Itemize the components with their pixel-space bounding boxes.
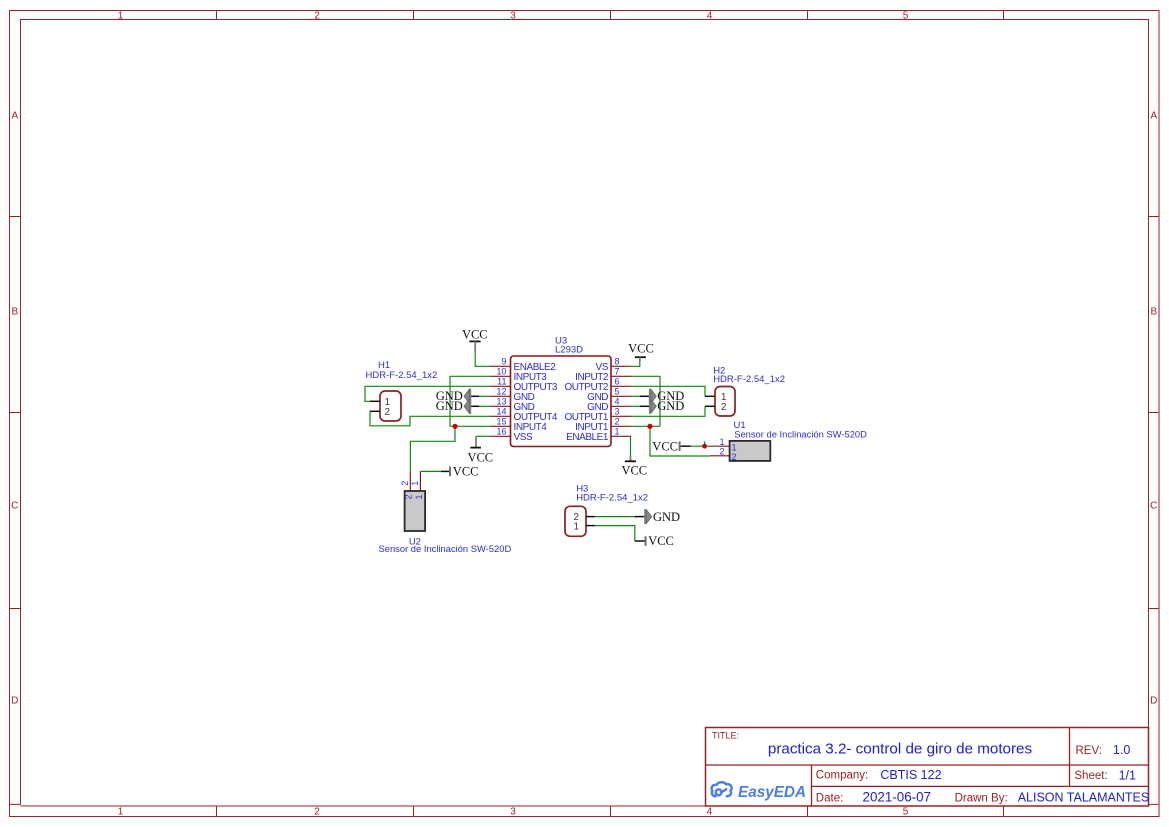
svg-text:2: 2 [404, 494, 414, 499]
svg-text:Sheet:: Sheet: [1074, 770, 1107, 782]
svg-text:1.0: 1.0 [1113, 743, 1130, 757]
svg-text:EasyEDA: EasyEDA [738, 784, 806, 801]
svg-text:CBTIS 122: CBTIS 122 [880, 768, 941, 782]
svg-text:4: 4 [615, 397, 620, 407]
svg-text:TITLE:: TITLE: [712, 731, 739, 741]
svg-text:B: B [11, 307, 18, 318]
svg-text:3: 3 [510, 806, 516, 817]
svg-text:VCC: VCC [652, 439, 678, 453]
svg-text:1/1: 1/1 [1119, 768, 1136, 782]
svg-text:11: 11 [497, 377, 506, 387]
svg-text:8: 8 [615, 357, 620, 367]
svg-text:6: 6 [615, 377, 620, 387]
svg-text:2: 2 [314, 10, 320, 21]
svg-text:1: 1 [118, 806, 124, 817]
svg-text:14: 14 [496, 407, 506, 417]
svg-text:12: 12 [496, 387, 506, 397]
svg-text:3: 3 [615, 407, 620, 417]
svg-text:Sensor de Inclinación SW-520D: Sensor de Inclinación SW-520D [734, 428, 867, 439]
svg-text:9: 9 [501, 357, 506, 367]
svg-text:ALISON TALAMANTES: ALISON TALAMANTES [1018, 791, 1150, 805]
svg-text:HDR-F-2.54_1x2: HDR-F-2.54_1x2 [366, 370, 438, 381]
svg-text:5: 5 [903, 806, 909, 817]
svg-text:A: A [11, 110, 18, 121]
svg-text:VCC: VCC [628, 342, 654, 356]
svg-text:15: 15 [496, 417, 506, 427]
svg-text:2: 2 [732, 452, 737, 462]
svg-text:VSS: VSS [514, 432, 533, 443]
svg-text:practica 3.2- control de giro: practica 3.2- control de giro de motores [768, 741, 1033, 758]
svg-text:D: D [11, 696, 18, 707]
svg-text:1: 1 [414, 494, 424, 499]
svg-text:1: 1 [719, 437, 724, 447]
svg-text:GND: GND [436, 399, 463, 413]
svg-text:13: 13 [496, 397, 506, 407]
svg-text:16: 16 [496, 427, 506, 437]
svg-text:2: 2 [615, 417, 620, 427]
svg-text:D: D [1150, 696, 1157, 707]
svg-text:VCC: VCC [467, 450, 493, 464]
svg-text:2: 2 [385, 407, 391, 418]
svg-text:C: C [11, 501, 18, 512]
svg-text:VCC: VCC [453, 465, 479, 479]
svg-text:1: 1 [615, 427, 620, 437]
svg-text:A: A [1150, 110, 1157, 121]
svg-text:GND: GND [653, 510, 680, 524]
svg-text:2: 2 [719, 446, 724, 456]
svg-text:2: 2 [721, 402, 727, 413]
svg-text:4: 4 [707, 10, 713, 21]
svg-text:VCC: VCC [462, 327, 488, 341]
svg-text:VCC: VCC [621, 464, 647, 478]
svg-text:Sensor de Inclinación SW-520D: Sensor de Inclinación SW-520D [379, 543, 512, 554]
svg-text:4: 4 [707, 806, 713, 817]
svg-text:C: C [1150, 501, 1157, 512]
svg-text:1: 1 [118, 10, 124, 21]
svg-text:Drawn By:: Drawn By: [955, 792, 1008, 804]
svg-text:7: 7 [615, 367, 620, 377]
svg-text:1: 1 [410, 481, 420, 486]
svg-text:1: 1 [732, 443, 737, 453]
svg-text:HDR-F-2.54_1x2: HDR-F-2.54_1x2 [713, 374, 785, 385]
svg-text:10: 10 [496, 367, 506, 377]
svg-text:2021-06-07: 2021-06-07 [863, 790, 932, 805]
svg-text:HDR-F-2.54_1x2: HDR-F-2.54_1x2 [576, 493, 648, 504]
svg-text:5: 5 [615, 387, 620, 397]
svg-text:REV:: REV: [1076, 745, 1102, 757]
svg-text:VCC: VCC [648, 534, 674, 548]
svg-text:B: B [1150, 307, 1157, 318]
svg-text:1: 1 [574, 521, 580, 532]
svg-text:ENABLE1: ENABLE1 [566, 432, 609, 443]
svg-text:5: 5 [903, 10, 909, 21]
svg-text:Date:: Date: [816, 792, 844, 804]
svg-text:3: 3 [510, 10, 516, 21]
svg-text:L293D: L293D [555, 345, 583, 356]
svg-text:2: 2 [400, 481, 410, 486]
svg-text:2: 2 [314, 806, 320, 817]
svg-text:Company:: Company: [816, 770, 868, 782]
svg-text:GND: GND [657, 399, 684, 413]
